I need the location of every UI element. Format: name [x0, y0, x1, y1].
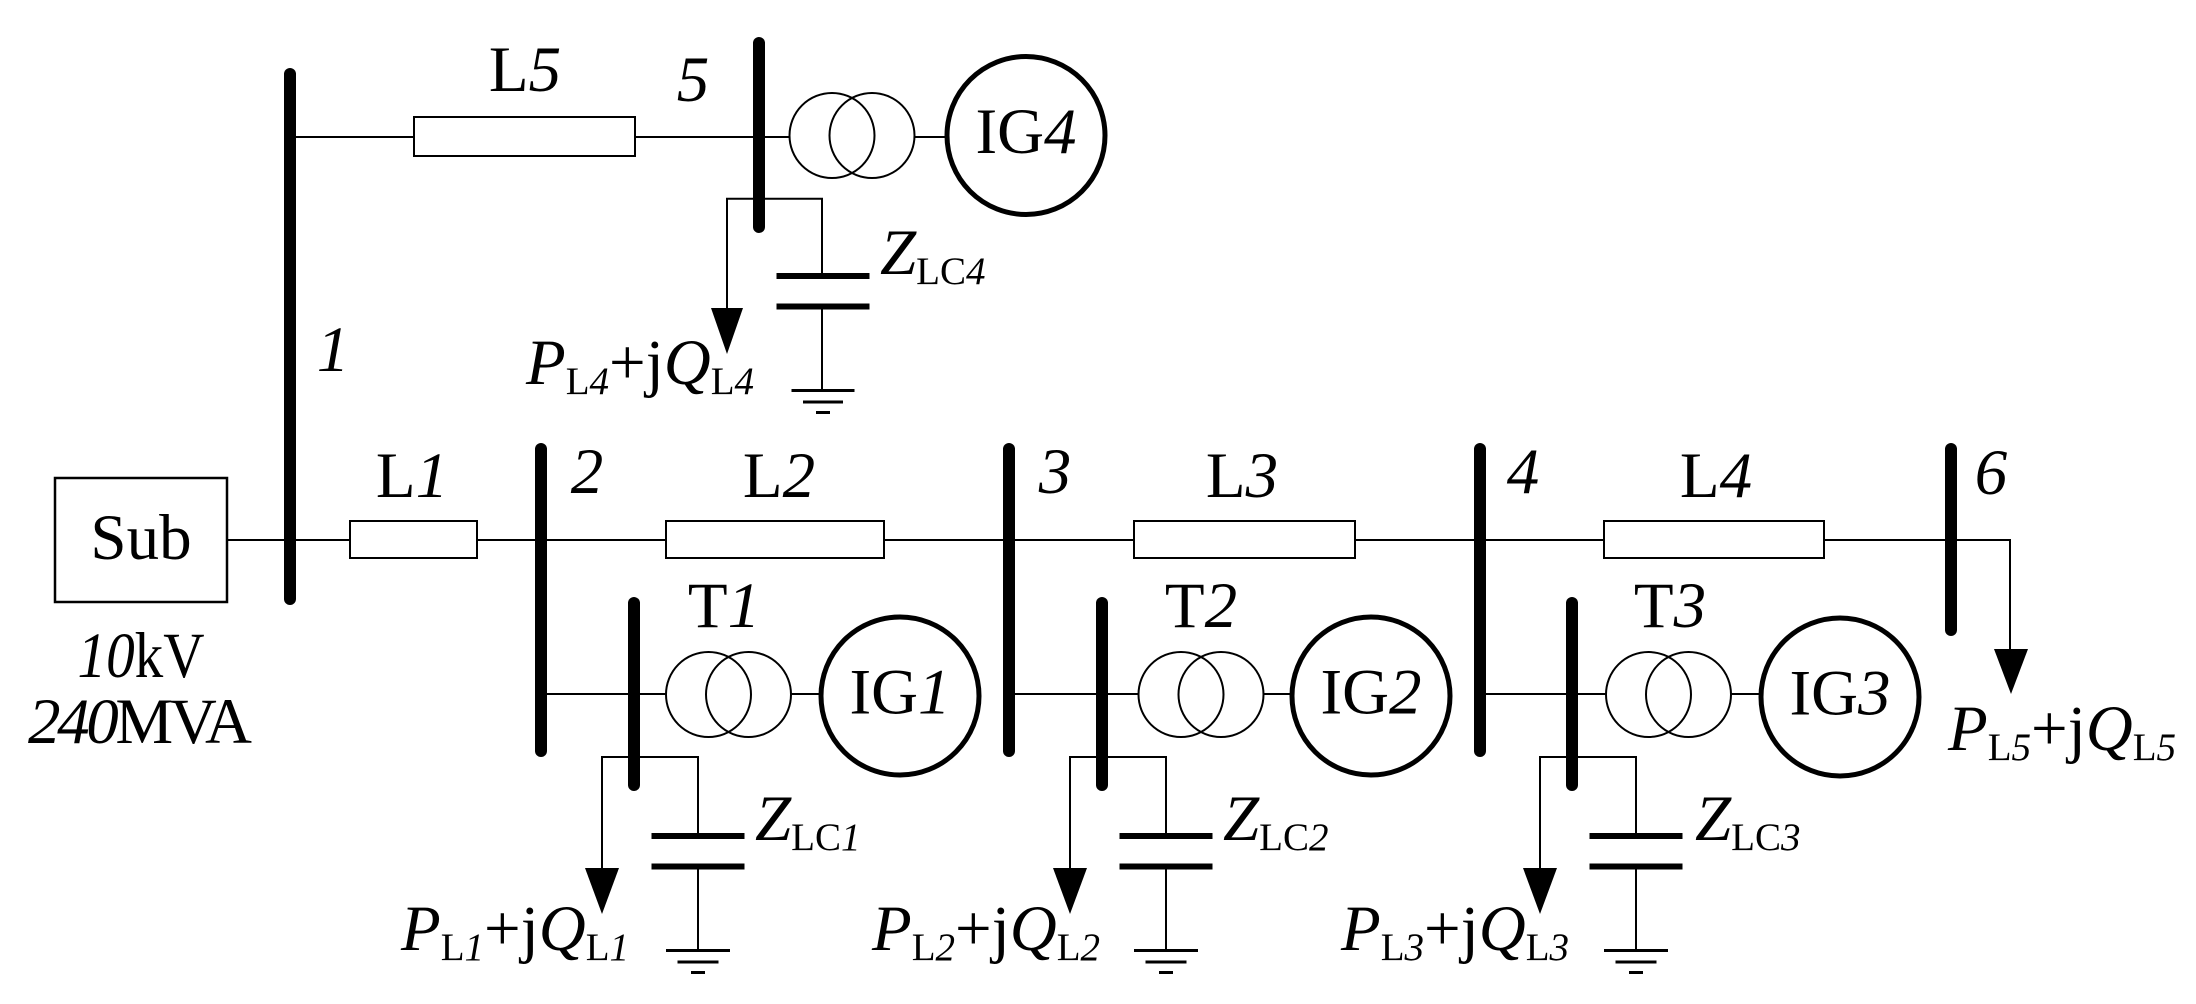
svg-text:10kV: 10kV	[78, 620, 205, 692]
svg-text:L1: L1	[376, 440, 448, 512]
ground T3	[1604, 949, 1668, 952]
line L2	[666, 521, 884, 558]
bus 2	[535, 449, 547, 751]
bus T3	[1566, 603, 1578, 785]
transformer T4 (bus5)	[790, 93, 875, 178]
bus 1	[284, 74, 296, 599]
svg-text:1: 1	[317, 314, 350, 386]
generator IG4	[947, 57, 1105, 215]
wire bus3 to T2	[1009, 693, 1139, 695]
svg-text:2: 2	[571, 436, 604, 508]
wire top feeder y=137	[290, 136, 789, 138]
bus T2	[1096, 603, 1108, 785]
load branch bus6: drop wire	[2009, 540, 2011, 650]
substation box Sub	[55, 478, 227, 602]
line L5	[414, 117, 635, 156]
load arrow P_L2	[1053, 868, 1087, 914]
generator IG1	[821, 617, 979, 775]
line L4	[1604, 521, 1824, 558]
wire bus4 to T3	[1480, 693, 1606, 695]
svg-text:T3: T3	[1634, 570, 1706, 642]
wire bus2 to T1	[541, 693, 666, 695]
transformer T1	[666, 652, 751, 737]
transformer T2	[1139, 652, 1224, 737]
ground bus5	[792, 389, 855, 392]
wire T1 to IG1	[791, 693, 821, 695]
capacitor Z_LC4	[777, 273, 870, 279]
load branch T1: connector	[602, 757, 698, 868]
svg-text:6: 6	[1975, 437, 2008, 509]
svg-text:Sub: Sub	[90, 502, 191, 574]
load arrow P_L4	[711, 308, 743, 354]
svg-text:L5: L5	[489, 34, 561, 106]
svg-text:4: 4	[1507, 436, 1540, 508]
svg-text:IG2: IG2	[1320, 657, 1421, 729]
ground T1	[666, 949, 730, 952]
line L1	[350, 521, 477, 558]
svg-text:T2: T2	[1165, 570, 1237, 642]
svg-text:L4: L4	[1680, 440, 1752, 512]
capacitor Z_LC3	[1590, 833, 1683, 839]
bus 4	[1474, 449, 1486, 751]
generator IG3	[1761, 618, 1919, 776]
generator IG2	[1292, 617, 1450, 775]
capacitor Z_LC2	[1120, 833, 1213, 839]
svg-text:T1: T1	[688, 570, 760, 642]
line L3	[1134, 521, 1355, 558]
svg-text:3: 3	[1038, 436, 1072, 508]
load arrow P_L1	[585, 868, 619, 914]
wire main feeder y=540	[227, 539, 2011, 541]
wire T3 to IG3	[1731, 693, 1761, 695]
load branch T3: connector	[1540, 757, 1636, 868]
bus 6	[1945, 449, 1957, 630]
bus 5	[753, 43, 765, 227]
bus 3	[1003, 449, 1015, 751]
transformer T3	[1606, 652, 1691, 737]
load branch bus5: connector	[727, 199, 822, 310]
svg-text:240MVA: 240MVA	[28, 686, 252, 758]
svg-text:L2: L2	[743, 440, 815, 512]
svg-text:IG4: IG4	[975, 96, 1076, 168]
wire T2 to IG2	[1264, 693, 1292, 695]
bus T1	[628, 603, 640, 785]
load arrow P_L5	[1994, 649, 2028, 694]
capacitor Z_LC1	[652, 833, 745, 839]
wire transformer T4 to IG4	[915, 136, 947, 138]
ground T2	[1134, 949, 1198, 952]
svg-text:L3: L3	[1206, 440, 1278, 512]
svg-text:5: 5	[677, 44, 710, 116]
load arrow P_L3	[1523, 868, 1557, 914]
svg-text:IG1: IG1	[849, 657, 950, 729]
load branch T2: connector	[1070, 757, 1166, 868]
svg-text:IG3: IG3	[1789, 658, 1890, 730]
